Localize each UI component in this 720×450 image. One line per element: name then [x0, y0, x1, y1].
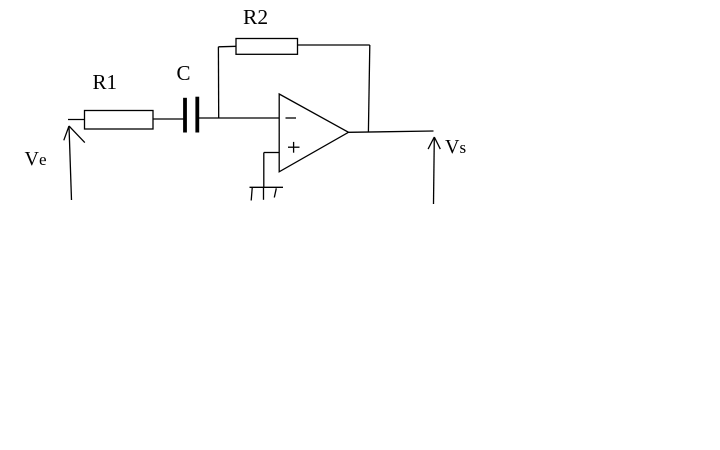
- op-amp plus sign: [288, 142, 300, 153]
- wire feedback right horizontal: [298, 44, 370, 46]
- wire to ground: [263, 153, 265, 188]
- wire R1 to C: [153, 118, 184, 120]
- capacitor C: [185, 97, 197, 133]
- svg-text:Ve: Ve: [25, 148, 47, 170]
- op-amp U1: [279, 94, 348, 172]
- svg-text:R2: R2: [243, 5, 268, 29]
- svg-text:Vs: Vs: [445, 136, 466, 158]
- arrow Vs: [428, 137, 440, 204]
- wire C to op-amp inverting input: [199, 117, 280, 119]
- wire input left stub: [68, 119, 85, 121]
- wire feedback right vertical: [368, 45, 369, 132]
- op-amp minus sign: [286, 117, 297, 119]
- ground: [250, 187, 284, 200]
- wire feedback left horizontal: [218, 45, 236, 48]
- wire output: [349, 131, 434, 132]
- wire non-inverting input: [264, 152, 279, 154]
- arrow Ve: [64, 126, 85, 200]
- wire feedback left vertical: [217, 47, 219, 118]
- resistor R1: [85, 111, 154, 130]
- svg-text:R1: R1: [93, 70, 118, 94]
- svg-text:C: C: [177, 61, 191, 85]
- resistor R2: [236, 39, 298, 55]
